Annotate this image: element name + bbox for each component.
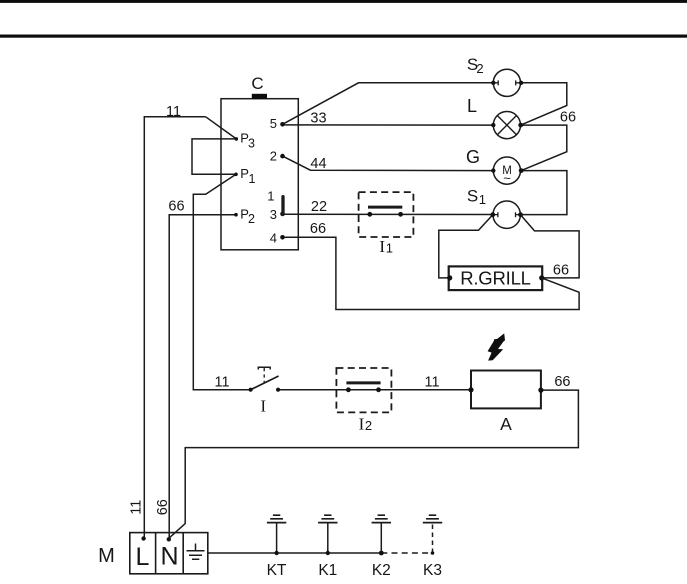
svg-text:K2: K2	[372, 562, 391, 579]
pin P2 dot	[234, 213, 238, 217]
ground KT dot	[274, 551, 278, 555]
ground K3 dot	[431, 551, 435, 555]
contact I1 right dot	[398, 212, 403, 217]
svg-text:66: 66	[310, 221, 326, 237]
svg-text:11: 11	[128, 500, 144, 515]
contact I2 right dot	[376, 387, 381, 392]
S1 left dot	[490, 212, 495, 217]
wire net11 left vertical to L	[144, 117, 205, 538]
pin 2 dot	[280, 154, 285, 159]
svg-text:1: 1	[267, 189, 274, 204]
S2 left dot	[491, 81, 495, 85]
wire G right loop down to S1	[521, 171, 567, 215]
pin 5 dot	[280, 122, 285, 127]
svg-text:N: N	[160, 543, 178, 571]
switch I actuator T bar	[258, 367, 270, 369]
lamp L cross	[497, 116, 516, 135]
svg-text:2: 2	[476, 61, 483, 76]
lamp L right junction dot	[518, 123, 523, 128]
contact I2 bar	[346, 381, 380, 384]
wire L right loop down to G	[521, 125, 567, 171]
switch I terminal dot	[276, 388, 280, 392]
svg-text:66: 66	[554, 374, 570, 390]
motor G right junction dot	[519, 168, 524, 173]
M divider 2	[182, 533, 184, 574]
svg-text:11: 11	[424, 375, 439, 391]
svg-text:K3: K3	[423, 562, 442, 579]
svg-text:66: 66	[168, 199, 184, 215]
svg-text:1: 1	[386, 241, 393, 256]
contact I1 dashed box	[359, 192, 414, 237]
M earth symbol inside	[187, 544, 205, 560]
resistor box A	[471, 371, 541, 409]
contact I1 left dot	[367, 212, 372, 217]
R.GRILL box	[449, 266, 543, 290]
M terminal L dot	[141, 536, 145, 540]
svg-text:M: M	[98, 545, 115, 567]
S1 contacts	[493, 212, 521, 217]
svg-text:1: 1	[479, 192, 486, 207]
svg-text:I: I	[260, 396, 266, 415]
svg-text:11: 11	[214, 375, 229, 391]
svg-text:1: 1	[249, 172, 256, 186]
lamp L left dot	[491, 123, 495, 127]
svg-text:2: 2	[248, 212, 255, 226]
svg-text:L: L	[467, 96, 477, 116]
svg-text:L: L	[136, 543, 150, 571]
A right dot	[538, 388, 543, 393]
wire net66 P2 vertical to N	[169, 215, 236, 539]
M divider 1	[155, 533, 157, 574]
svg-text:5: 5	[270, 116, 277, 131]
wire 44 pin2 to G	[283, 156, 494, 171]
switch I pivot dot	[249, 388, 253, 392]
wire net11 diagonal into P3	[206, 117, 237, 139]
wire 66 pin4 to R.GRILL bottom loop	[283, 237, 580, 309]
svg-text:33: 33	[310, 110, 326, 126]
top rule 1	[0, 0, 687, 3]
ground K2 dot	[379, 551, 384, 556]
svg-text:KT: KT	[267, 562, 287, 579]
wire 22 pin3 to S1	[283, 213, 493, 215]
S1 right dot	[518, 212, 523, 217]
S2 right dot	[519, 81, 523, 85]
wire S2 right loop down to L	[521, 83, 567, 125]
wire S1 lower-right to R.GRILL right	[521, 215, 580, 278]
terminal box M	[130, 533, 208, 574]
contact I2 dashed box	[336, 368, 391, 412]
svg-text:R.GRILL: R.GRILL	[460, 268, 531, 289]
svg-text:2: 2	[270, 148, 277, 163]
svg-text:66: 66	[553, 263, 569, 279]
wire S1 lower-left to R.GRILL left	[439, 215, 493, 278]
svg-text:66: 66	[155, 499, 171, 515]
svg-text:3: 3	[248, 136, 255, 150]
ground K1 stem	[327, 523, 329, 553]
A left dot	[468, 387, 473, 392]
svg-text:C: C	[251, 74, 263, 93]
pin 3 dot	[280, 212, 285, 217]
ground KT stem	[276, 523, 278, 553]
connector C box	[221, 99, 298, 250]
spark igniter bolt	[488, 333, 505, 360]
contact I2 left dot	[346, 387, 351, 392]
top rule 2	[0, 35, 687, 38]
svg-text:K1: K1	[318, 562, 337, 579]
switch I blade	[251, 376, 279, 390]
pin 1-3 jumper bar	[281, 197, 284, 215]
R.GRILL right dot	[539, 275, 544, 280]
M terminal N dot	[167, 537, 171, 541]
ground KT symbol	[267, 515, 286, 522]
svg-text:I: I	[379, 237, 385, 256]
pin P3 dot	[235, 137, 239, 141]
ground K3 dashed stem	[432, 523, 434, 553]
switch S1 circle	[493, 201, 520, 228]
svg-text:~: ~	[503, 171, 511, 186]
svg-text:I: I	[359, 415, 365, 434]
svg-text:2: 2	[365, 418, 372, 433]
wire P1 to switch I	[193, 174, 250, 389]
wire net11 switch to A	[278, 389, 471, 391]
switch S2 circle	[493, 69, 520, 96]
svg-text:11: 11	[166, 104, 181, 120]
pin P1 dot	[234, 173, 238, 177]
ground K2 stem	[380, 523, 382, 553]
svg-text:66: 66	[560, 110, 576, 126]
svg-text:4: 4	[270, 230, 277, 245]
svg-text:A: A	[500, 414, 512, 434]
wire net66 A right to N	[169, 390, 579, 538]
connector C tab	[252, 94, 267, 99]
svg-text:22: 22	[311, 199, 327, 215]
wire pin5 to S2	[283, 83, 494, 125]
wire bracket P3-P1	[192, 139, 236, 174]
motor G left dot	[491, 168, 495, 172]
lamp L circle	[493, 112, 520, 139]
pin 4 dot	[280, 235, 285, 240]
switch I actuator dashed stem	[263, 368, 265, 383]
ground K3 symbol	[423, 515, 442, 522]
wire 33 pin5 to lamp L	[283, 124, 494, 126]
earth bus wire solid	[208, 552, 381, 554]
ground K1 dot	[326, 551, 330, 555]
ground K2 symbol	[372, 515, 391, 522]
svg-text:44: 44	[310, 156, 326, 172]
earth bus wire dashed to K3	[381, 552, 432, 554]
ground K1 symbol	[318, 515, 337, 522]
svg-text:S: S	[467, 186, 478, 205]
S2 contacts	[493, 80, 521, 85]
R.GRILL left dot	[447, 275, 452, 280]
contact I1 bar	[368, 206, 402, 209]
svg-text:G: G	[466, 147, 480, 167]
svg-text:3: 3	[270, 207, 277, 222]
motor G circle	[493, 157, 520, 184]
